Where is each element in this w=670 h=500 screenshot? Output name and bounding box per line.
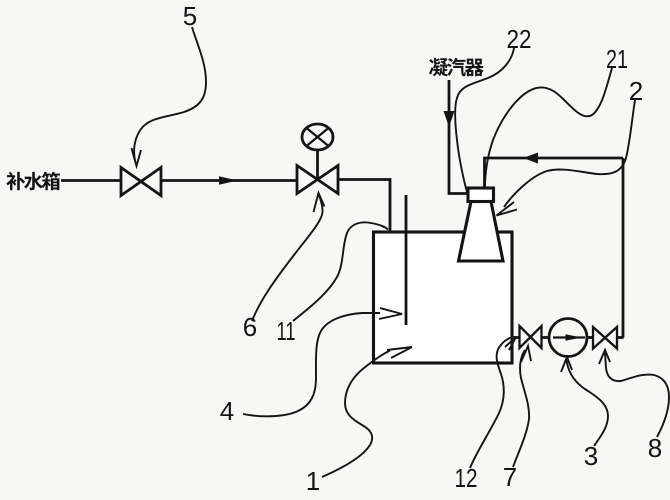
svg-text:2: 2 <box>629 76 643 106</box>
svg-text:6: 6 <box>243 312 257 342</box>
wire: return pipe from right, arrow left, down to flask neck <box>485 158 624 188</box>
svg-text:5: 5 <box>183 1 197 31</box>
arrowhead of leader 3 <box>561 357 572 372</box>
valve 6 (regulating valve with actuator) <box>297 166 338 194</box>
actuator circle with X (valve 6 handwheel) <box>302 124 333 150</box>
flow arrow on return pipe <box>523 153 538 164</box>
arrowhead of leader 7 <box>521 346 531 362</box>
leader line for label 8 <box>605 353 669 437</box>
wire: tank outlet to valve 7 <box>512 336 520 339</box>
wire: valve7 to pump <box>542 336 551 339</box>
leader line for label 4 <box>243 313 380 416</box>
svg-text:21: 21 <box>606 44 628 74</box>
leader line for label 3 <box>566 359 608 446</box>
svg-text:3: 3 <box>584 441 598 471</box>
flask 2 neck <box>468 188 494 202</box>
svg-text:12: 12 <box>455 463 478 493</box>
flow arrow on condensate pipe <box>444 111 455 127</box>
wire: pump to valve 8 <box>586 336 593 339</box>
makeup tank label 补水箱 <box>6 172 60 191</box>
arrowhead of leader 2 <box>497 202 518 216</box>
arrowhead of leader 4 <box>379 308 402 319</box>
leader line for label 7 <box>513 350 529 467</box>
condenser label 凝汽器 <box>429 58 484 76</box>
valve 7 (pump suction valve) <box>520 326 542 348</box>
valve 5 (makeup water valve) <box>121 168 161 196</box>
wire: feed line from makeup tank <box>61 179 121 182</box>
leader line for label 22 <box>455 48 514 192</box>
wire: valve8 to riser corner <box>617 336 624 339</box>
actuator stem of valve 6 <box>316 151 319 179</box>
leader line for label 1 <box>322 351 390 478</box>
flask 2 (flash expander) body <box>459 202 504 262</box>
wire: condensate pipe down from condenser <box>449 80 468 194</box>
svg-text:1: 1 <box>306 466 320 496</box>
arrowhead of leader 8 <box>599 350 610 364</box>
pump 3 (circulating pump) <box>549 319 587 357</box>
wire: valve6 to corner, down into tank <box>338 180 390 233</box>
svg-text:11: 11 <box>277 316 296 346</box>
leader line for label 21 <box>485 68 612 187</box>
arrowhead of leader 6 <box>314 193 325 212</box>
leader line for label 5 <box>134 27 206 161</box>
dip tube 11 inside tank <box>405 195 408 325</box>
svg-text:7: 7 <box>503 462 517 492</box>
wire: line valve5 to valve6 with flow arrow <box>161 179 297 182</box>
arrowhead of leader 1 <box>387 347 412 358</box>
svg-text:22: 22 <box>507 24 532 54</box>
leader line for label 6 <box>252 195 323 321</box>
svg-text:8: 8 <box>648 433 662 463</box>
pump flow arrow <box>553 336 585 338</box>
leader line for label 2 <box>504 100 635 207</box>
valve 8 (pump discharge valve) <box>593 327 617 349</box>
arrowhead of leader 12 <box>505 337 516 350</box>
wire: right riser down to pump line <box>622 158 625 338</box>
flow arrow on feed line <box>219 176 238 185</box>
leader line for label 12 <box>470 337 513 468</box>
arrowhead of leader 5 <box>132 148 142 166</box>
leader line for label 11 <box>293 222 388 321</box>
svg-text:4: 4 <box>220 396 234 426</box>
tank 1 (deaerator water tank) <box>374 232 513 363</box>
